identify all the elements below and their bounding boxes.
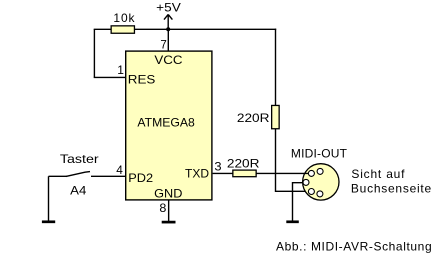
junction dot at +5V rail	[166, 27, 170, 31]
svg-text:GND: GND	[154, 186, 183, 200]
wire into RES pin	[94, 76, 126, 78]
svg-text:PD2: PD2	[128, 171, 153, 185]
wire DIN pin 2 to ground	[293, 183, 307, 221]
wire VCC pin 7 vertical	[167, 29, 169, 51]
resistor 10k	[111, 11, 135, 33]
wire switch right contact to PD2 pin 4	[91, 175, 125, 177]
DIN pin top-right	[317, 168, 323, 174]
wire 220R to DIN pin 5	[257, 172, 312, 174]
svg-text:+5V: +5V	[156, 1, 181, 15]
ground under DIN	[286, 220, 299, 223]
svg-text:VCC: VCC	[154, 53, 182, 67]
svg-text:Buchsenseite: Buchsenseite	[351, 182, 432, 196]
svg-text:Sicht auf: Sicht auf	[351, 167, 405, 181]
svg-text:7: 7	[160, 37, 167, 51]
DIN pin mid-left	[303, 179, 309, 185]
DIN pin top-left	[308, 170, 314, 176]
op-amp U1 ATMEGA8 body	[126, 51, 212, 200]
svg-text:3: 3	[214, 160, 222, 174]
wire +5V corner down to 220R vertical	[275, 29, 277, 106]
wire GND pin 8 vertical	[168, 201, 170, 222]
connector J1 MIDI-OUT DIN body	[303, 164, 339, 200]
wire TXD pin 3 to 220R	[213, 172, 233, 174]
taster switch left post	[49, 175, 68, 177]
svg-text:ATMEGA8: ATMEGA8	[137, 116, 195, 130]
svg-text:220R: 220R	[237, 111, 270, 125]
wire from 220R down and right to DIN pin	[276, 129, 312, 191]
wire from left corner to 10k	[94, 28, 112, 30]
svg-text:Abb.: MIDI-AVR-Schaltung: Abb.: MIDI-AVR-Schaltung	[276, 239, 432, 253]
taster switch arm	[66, 172, 90, 177]
DIN pin bottom-right	[317, 191, 323, 197]
svg-text:1: 1	[117, 63, 124, 77]
svg-text:Taster: Taster	[60, 152, 99, 166]
node +5V supply arrow	[156, 1, 181, 30]
ground under chip	[162, 221, 176, 224]
svg-text:TXD: TXD	[185, 167, 209, 181]
svg-text:220R: 220R	[227, 157, 260, 171]
svg-text:8: 8	[159, 201, 166, 215]
DIN pin bottom-left	[308, 189, 314, 195]
ground under taster	[42, 220, 55, 223]
resistor 220R series horizontal	[227, 157, 260, 177]
wire switch to ground vertical	[48, 176, 50, 221]
svg-text:RES: RES	[128, 73, 156, 87]
svg-text:A4: A4	[70, 184, 87, 198]
svg-text:MIDI-OUT: MIDI-OUT	[291, 147, 348, 161]
wire left vertical down to RES	[93, 29, 95, 77]
wire top horizontal from 10k to corner	[135, 28, 276, 30]
svg-text:10k: 10k	[113, 11, 135, 25]
resistor 220R pullup vertical	[237, 105, 279, 128]
svg-text:4: 4	[116, 163, 123, 177]
